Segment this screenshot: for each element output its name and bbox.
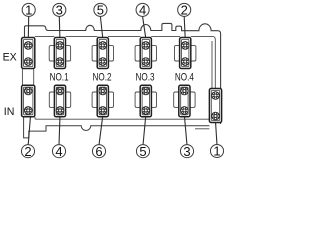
leader to EX cap NO.2 (5)	[100, 17, 102, 39]
bolt bosses beside IN cap 3	[135, 92, 156, 107]
bolt bosses beside EX cap 1	[49, 46, 70, 61]
svg-text:2: 2	[181, 3, 188, 18]
bottom flange outline with half-round notch	[24, 117, 210, 138]
leader from IN cap NO.4 (3)	[184, 116, 187, 146]
sequence number 4 (top)	[136, 3, 149, 18]
bolt bosses beside EX cap 3	[135, 46, 156, 61]
svg-text:5: 5	[97, 3, 104, 18]
svg-text:4: 4	[139, 3, 146, 18]
leader to EX cap NO.1 (3)	[58, 17, 61, 39]
svg-text:6: 6	[95, 144, 102, 159]
svg-text:1: 1	[25, 3, 32, 18]
EX cap NO.1	[54, 38, 65, 69]
leader from IN cap NO.1 (4)	[59, 116, 60, 146]
EX cap NO.4	[180, 38, 191, 69]
svg-text:5: 5	[139, 144, 146, 159]
bolt bosses beside EX cap 4	[175, 46, 196, 61]
sequence number 1 (bottom)	[210, 144, 223, 159]
svg-text:EX: EX	[3, 51, 17, 63]
svg-text:3: 3	[56, 3, 63, 18]
inner ledge + inner right contour	[191, 36, 216, 88]
sequence number 4 (bottom)	[52, 144, 65, 159]
sequence number 3 (bottom)	[180, 144, 193, 159]
sequence number 6 (bottom)	[92, 144, 105, 159]
svg-text:NO.3: NO.3	[136, 71, 155, 83]
left end rail connecting EX and IN caps	[21, 68, 23, 86]
EX left end cap	[22, 38, 35, 69]
bolt bosses beside IN cap 2	[92, 92, 113, 107]
right neck line	[211, 41, 213, 89]
svg-text:NO.1: NO.1	[50, 71, 69, 83]
sequence number 5 (top)	[94, 3, 107, 18]
svg-text:2: 2	[24, 144, 31, 159]
IN cap NO.3	[140, 85, 151, 116]
leader to EX cap NO.4 (2)	[184, 17, 185, 39]
head body outline (top edge with bumps, left edge, right edge)	[25, 23, 221, 124]
svg-text:IN: IN	[4, 106, 15, 118]
sequence number 5 (bottom)	[136, 144, 149, 159]
IN right end cap	[209, 89, 221, 123]
svg-text:4: 4	[55, 144, 62, 159]
IN cap NO.4	[179, 85, 190, 116]
bolt bosses beside IN cap 4	[174, 92, 195, 107]
sequence number 2 (top)	[178, 3, 191, 18]
bolt bosses beside IN cap 1	[49, 92, 70, 107]
bottom edge upper line	[35, 117, 210, 119]
bottom lower ledge near right end	[195, 128, 209, 130]
leader to EX cap No.1 bolt pair (1)	[27, 17, 29, 39]
leader from IN cap NO.2 (6)	[99, 116, 103, 146]
svg-text:NO.4: NO.4	[175, 71, 194, 83]
svg-text:1: 1	[213, 144, 220, 159]
sequence number 2 (bottom)	[21, 144, 34, 159]
EX cap NO.2	[97, 38, 108, 69]
leader to EX cap NO.3 (4)	[143, 17, 146, 39]
inner ledge line, exhaust side	[35, 35, 55, 37]
bolt bosses beside EX cap 2	[92, 46, 113, 61]
svg-text:NO.2: NO.2	[93, 71, 112, 83]
leader from IN cap NO.3 (5)	[143, 116, 146, 146]
IN cap NO.1	[54, 85, 65, 116]
IN left end cap	[22, 85, 35, 116]
sequence number 3 (top)	[53, 3, 66, 18]
leader from IN right end cap (1)	[216, 122, 218, 145]
IN cap NO.2	[97, 85, 108, 116]
sequence number 1 (top)	[22, 3, 35, 18]
EX cap NO.3	[140, 38, 151, 69]
leader from IN end cap (2)	[28, 116, 30, 145]
svg-text:3: 3	[183, 144, 190, 159]
